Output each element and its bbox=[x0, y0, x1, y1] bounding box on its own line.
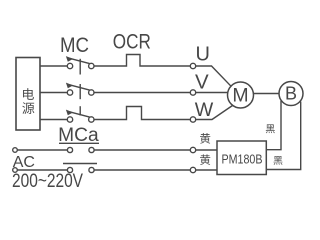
wire row1 to box bbox=[196, 149, 217, 151]
wire L2 bbox=[40, 92, 67, 94]
wire L1 bbox=[40, 65, 67, 67]
svg-text:OCR: OCR bbox=[113, 30, 151, 54]
terminal V bbox=[190, 90, 195, 95]
contact MCa pole1 bbox=[59, 143, 99, 152]
wire L2 straight bbox=[94, 92, 190, 94]
svg-text:MCa: MCa bbox=[58, 125, 99, 146]
svg-text:200~220V: 200~220V bbox=[12, 170, 83, 192]
wire L3 bbox=[40, 119, 67, 121]
wire W to motor bbox=[196, 106, 233, 120]
wire U to motor bbox=[196, 66, 231, 86]
label black lower bbox=[274, 156, 283, 165]
wire row2 left bbox=[17, 169, 67, 171]
contactor MC pole1 bbox=[66, 56, 94, 74]
svg-text:PM180B: PM180B bbox=[222, 153, 263, 167]
label black upper bbox=[266, 124, 275, 133]
terminal U bbox=[190, 63, 195, 68]
label 源 bbox=[22, 102, 34, 114]
svg-text:B: B bbox=[285, 84, 297, 104]
svg-text:M: M bbox=[232, 85, 248, 107]
wire row1 left bbox=[17, 149, 67, 151]
label yellow lower bbox=[200, 154, 210, 165]
svg-text:U: U bbox=[196, 44, 210, 66]
svg-text:V: V bbox=[195, 71, 209, 94]
AC terminal row2 bbox=[13, 168, 18, 173]
AC terminal row1 bbox=[13, 148, 18, 153]
contactor MC pole3 bbox=[66, 106, 94, 122]
connector row1 bbox=[190, 147, 195, 152]
terminal W bbox=[190, 117, 195, 122]
connector row2 bbox=[190, 167, 195, 172]
motor M circle bbox=[228, 82, 254, 108]
black wire left bbox=[266, 101, 281, 150]
wire row2 mid bbox=[94, 169, 190, 171]
svg-text:AC: AC bbox=[13, 154, 35, 171]
power source box bbox=[16, 58, 40, 131]
label yellow upper bbox=[200, 133, 210, 144]
wire L3 with OCR heater bbox=[94, 107, 190, 120]
wire row2 to box bbox=[196, 169, 217, 171]
wire L1 with OCR heater bbox=[94, 55, 190, 67]
brake B circle bbox=[279, 82, 303, 106]
wire V to motor bbox=[196, 92, 228, 94]
wire motor to brake bbox=[254, 93, 280, 95]
contact MCa pole2 bbox=[63, 164, 97, 173]
label 电 bbox=[23, 88, 34, 100]
svg-text:MC: MC bbox=[60, 34, 89, 57]
PM180B box bbox=[217, 141, 266, 175]
wire row1 mid bbox=[94, 149, 190, 151]
svg-text:W: W bbox=[195, 100, 214, 121]
black wire right bbox=[266, 102, 300, 170]
contactor MC pole2 bbox=[66, 83, 94, 100]
